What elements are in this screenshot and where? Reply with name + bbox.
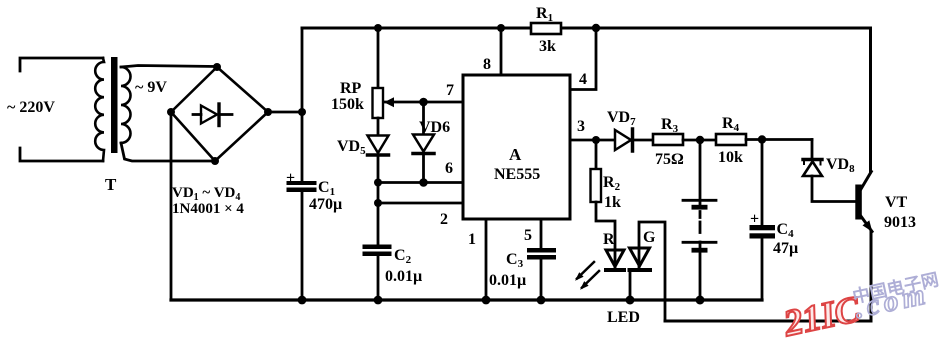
diode VD7 cathode bar <box>631 129 635 151</box>
svg-text:47µ: 47µ <box>773 240 798 257</box>
capacitor C2 plates <box>363 245 392 250</box>
resistor R4 <box>716 134 746 145</box>
LED light arrow 1 <box>577 262 594 279</box>
svg-text:A: A <box>509 145 522 164</box>
battery bottom lead <box>699 252 702 300</box>
junction pin1 bottom rail <box>482 296 491 305</box>
node bridge left vertex <box>167 108 175 116</box>
diode VD6 cathode bar <box>413 152 434 156</box>
diode VD7 triangle <box>615 130 631 150</box>
junction pin6 tap <box>374 179 382 187</box>
junction bridge output / C1 <box>298 108 306 116</box>
svg-text:10k: 10k <box>718 149 743 166</box>
transformer T secondary winding <box>121 67 131 143</box>
svg-text:+: + <box>286 170 295 187</box>
wire LED G anode loop to emitter return <box>639 222 665 321</box>
wire secondary top to bridge <box>121 66 216 68</box>
junction top rail R1 right <box>592 24 600 32</box>
battery cell 1 short plate <box>692 205 708 210</box>
wire pin4 <box>570 28 596 90</box>
diode VD8 cathode bar <box>803 158 822 161</box>
watermark chinese characters <box>851 269 941 307</box>
LED R triangle <box>606 250 624 267</box>
potentiometer RP body <box>373 88 384 118</box>
wire R2 to LED R anode <box>596 202 615 250</box>
wire RP top <box>377 28 380 88</box>
wire LED common cathode to rail <box>629 272 632 300</box>
junction battery bottom rail <box>696 296 705 305</box>
transistor Q1 emitter lead with arrow <box>859 214 872 232</box>
node bridge bottom vertex <box>211 157 219 165</box>
svg-text:9013: 9013 <box>884 214 916 231</box>
battery cell 2 long plate <box>683 241 716 244</box>
wire VD5 down through pin6/pin2 taps to C2 <box>377 157 380 245</box>
transistor Q1 collector lead <box>861 172 871 190</box>
svg-text:LED: LED <box>607 309 640 326</box>
svg-text:R: R <box>603 231 615 248</box>
wire pin1 to bottom rail <box>485 219 488 300</box>
svg-text:0.01µ: 0.01µ <box>385 268 422 285</box>
node bridge top vertex <box>213 63 221 71</box>
wire pin2 <box>378 202 463 205</box>
AC source terminal top hook <box>20 58 103 71</box>
svg-text:RP: RP <box>340 80 362 97</box>
capacitor C3 top lead pin5 <box>540 219 543 248</box>
battery cell 1 long plate <box>683 199 716 202</box>
wire bottom rail <box>171 298 762 301</box>
svg-text:VD6: VD6 <box>419 119 450 136</box>
diode VD5 triangle <box>368 136 389 154</box>
wire collector to top rail <box>869 28 872 172</box>
LED G cathode bar <box>628 268 653 272</box>
wire VD8 branch down <box>811 140 814 160</box>
LED G anode line <box>638 248 641 268</box>
wire VD6 bottom lead <box>422 155 425 183</box>
LED R anode line <box>614 250 617 268</box>
bridge internal diode cathode bar <box>217 104 220 126</box>
svg-text:1N4001 × 4: 1N4001 × 4 <box>172 201 244 217</box>
wire VD8 to transistor base <box>812 176 856 202</box>
svg-text:NE555: NE555 <box>494 166 540 183</box>
bridge rectifier VD1-VD4 diamond <box>171 67 268 161</box>
wire emitter down <box>870 231 873 321</box>
transformer T primary winding <box>95 58 104 161</box>
junction C2 bottom rail <box>374 296 383 305</box>
capacitor C4 top lead <box>761 140 764 227</box>
svg-text:1: 1 <box>468 231 476 248</box>
svg-text:+: + <box>750 211 759 228</box>
wire bridge output to filter node <box>268 111 302 114</box>
diode VD8 triangle <box>803 162 822 177</box>
diode VD6 triangle <box>413 135 434 152</box>
svg-text:3k: 3k <box>539 38 556 55</box>
diode VD5 cathode bar <box>368 153 389 157</box>
junction pin3 R2 <box>592 136 600 144</box>
wire pin3 <box>570 139 615 142</box>
wire R3 to R4 <box>683 139 716 142</box>
capacitor C4 bottom lead <box>761 239 764 301</box>
capacitor C1 plates <box>287 181 317 185</box>
resistor R2 lead top <box>595 140 598 169</box>
wire main vertical through C1 <box>301 28 304 181</box>
resistor R1 <box>531 23 561 34</box>
junction C1 bottom rail <box>298 296 307 305</box>
capacitor C4 plates <box>750 225 776 230</box>
svg-text:470µ: 470µ <box>309 196 342 213</box>
svg-text:5: 5 <box>524 227 532 244</box>
wire RP to VD5 <box>377 118 380 136</box>
wire VD7 to R3 <box>634 139 653 142</box>
junction C3 bottom rail <box>537 296 546 305</box>
svg-text:7: 7 <box>446 82 454 99</box>
transformer T core <box>111 57 118 153</box>
svg-text:~ 220V: ~ 220V <box>7 99 55 116</box>
bridge internal diode triangle <box>193 113 201 116</box>
svg-text:8: 8 <box>483 56 491 73</box>
wire C2 to bottom rail <box>377 256 380 300</box>
wire pin6 <box>378 181 463 184</box>
junction pin2 tap <box>374 199 382 207</box>
transistor Q1 base bar <box>855 185 862 220</box>
node bridge right vertex <box>264 108 272 116</box>
wire R4 to VD8 branch <box>746 138 812 141</box>
op-amp timer U1 NE555 box <box>463 75 570 219</box>
junction VD6 top <box>419 98 428 107</box>
resistor R3 <box>653 134 683 145</box>
svg-text:~ 9V: ~ 9V <box>135 79 167 96</box>
LED light arrow 2 <box>582 271 599 288</box>
battery cell 2 connector <box>699 242 702 248</box>
svg-text:0.01µ: 0.01µ <box>489 272 526 289</box>
junction C4 top <box>758 135 766 143</box>
junction VD6 pin6 wire <box>419 178 428 187</box>
wire pin7 with wiper <box>384 101 463 104</box>
svg-text:T: T <box>105 175 117 194</box>
LED R cathode bar <box>604 268 626 272</box>
svg-text:3: 3 <box>577 118 585 135</box>
AC source terminal bottom hook <box>20 148 103 161</box>
resistor R2 <box>591 169 602 202</box>
watermark 21IC <box>779 289 864 345</box>
wire secondary bottom to bridge <box>121 143 215 161</box>
LED G triangle <box>630 248 650 266</box>
potentiometer RP wiper arrow <box>384 97 394 107</box>
junction top rail pin8 <box>497 24 505 32</box>
battery cell 2 short plate <box>692 248 708 253</box>
battery top lead <box>699 140 702 205</box>
wire emitter return bottom <box>665 320 871 323</box>
watermark dot com <box>852 278 932 325</box>
junction top rail RP <box>374 24 382 32</box>
svg-text:150k: 150k <box>331 96 364 113</box>
wire top rail <box>302 27 531 30</box>
svg-text:G: G <box>643 229 656 246</box>
wire pin8 <box>500 28 503 75</box>
wire bridge left vertex down to bottom rail <box>170 112 173 300</box>
svg-text:1k: 1k <box>604 194 621 211</box>
wire VD6 top lead <box>422 102 425 135</box>
svg-text:6: 6 <box>445 160 453 177</box>
capacitor C3 plates <box>527 248 556 253</box>
svg-text:4: 4 <box>579 71 587 88</box>
capacitor C3 bottom lead <box>540 260 543 301</box>
junction battery top <box>696 136 704 144</box>
battery middle dashed <box>699 212 702 218</box>
svg-text:75Ω: 75Ω <box>655 151 684 168</box>
svg-text:VT: VT <box>885 194 908 211</box>
svg-text:2: 2 <box>440 211 448 228</box>
junction LED bottom rail <box>626 296 635 305</box>
